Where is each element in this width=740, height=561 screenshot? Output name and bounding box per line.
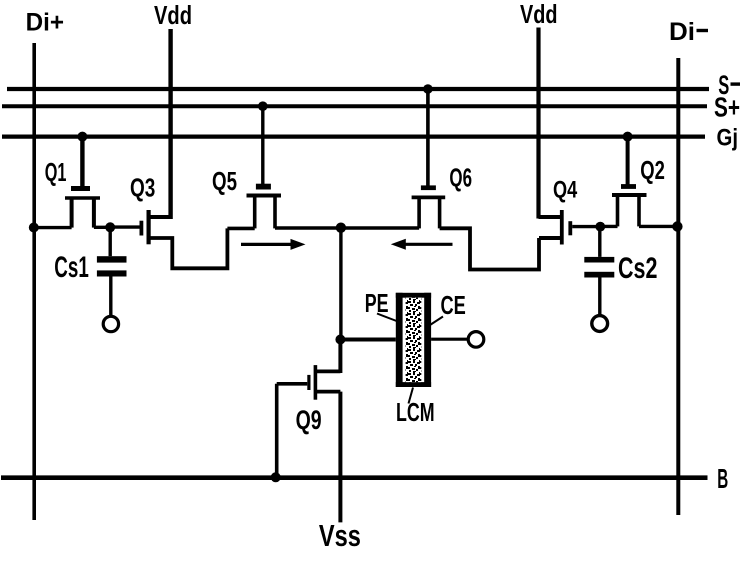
transistor Q9 (277, 340, 341, 400)
wire staircase Q6-Q4 (440, 228, 539, 269)
bus Gj (2, 135, 705, 139)
svg-text:Di: Di (669, 18, 695, 46)
LCM liquid crystal cell (396, 293, 431, 387)
wire Q9 gate tie to B (275, 384, 279, 478)
power Vdd right wire (536, 28, 540, 219)
svg-text:Q4: Q4 (553, 177, 578, 204)
svg-text:Q1: Q1 (45, 157, 67, 187)
bus S- (7, 87, 709, 91)
wire Q2 right to Di- (639, 225, 678, 228)
svg-text:Q2: Q2 (640, 155, 665, 185)
svg-text:Q6: Q6 (449, 163, 472, 193)
junction Q1 gate on Gj (77, 132, 87, 142)
label PE (365, 288, 401, 323)
wire node C to Q6 left (341, 226, 419, 230)
power Vdd left wire (168, 29, 172, 219)
transistor Q1 (65, 186, 100, 228)
svg-text:LCM: LCM (396, 397, 435, 427)
junction Q9 gate on B (271, 472, 281, 482)
wire Di- column (676, 58, 680, 515)
junction Q2 gate on Gj (623, 132, 633, 142)
transistor Q6 (412, 185, 446, 228)
net label S- (718, 70, 740, 100)
wire Q5 right to node C (275, 226, 341, 230)
wire staircase Q3-Q5 (149, 228, 228, 268)
wire Di+ column (32, 43, 36, 520)
svg-text:Di+: Di+ (26, 9, 64, 37)
svg-text:Gj: Gj (717, 125, 739, 152)
wire Q6 gate drop (426, 89, 430, 186)
wire Q1 gate drop (80, 137, 84, 189)
node D junction (pixel node) (335, 335, 345, 345)
wire node B2 to Q2 left (600, 225, 617, 228)
terminal circle CE (468, 332, 484, 348)
svg-text:Q9: Q9 (296, 405, 322, 435)
wire Q1 source to Di+ (34, 226, 72, 229)
wire Q5 left to staircase (227, 227, 254, 231)
wire CE plate to terminal (431, 338, 468, 341)
transistor Q2 (612, 184, 647, 226)
junction Q6 gate on S- (423, 84, 433, 94)
svg-text:S+: S+ (714, 92, 740, 123)
bus S+ (2, 104, 707, 108)
wire node C down (339, 228, 342, 340)
node A junction (105, 222, 115, 232)
svg-text:B: B (717, 463, 728, 494)
node C junction (336, 223, 346, 233)
svg-text:Q5: Q5 (212, 166, 237, 196)
label LCM (396, 388, 435, 428)
svg-text:Cs1: Cs1 (54, 251, 89, 284)
svg-text:Vdd: Vdd (520, 0, 558, 29)
svg-text:Cs2: Cs2 (618, 252, 657, 285)
node B2 junction (595, 222, 605, 232)
capacitor Cs2 (584, 227, 614, 332)
arrow left-pointing (391, 239, 453, 250)
net label Di- (669, 18, 708, 46)
wire Q9 source to Vss (338, 392, 342, 523)
junction on Di- (672, 221, 682, 231)
junction on Di+ (29, 223, 39, 233)
svg-text:Vdd: Vdd (154, 0, 192, 30)
junction Q5 gate on S+ (258, 101, 268, 111)
transistor Q4 (539, 210, 601, 245)
transistor Q5 (247, 184, 282, 229)
arrow right-pointing (241, 239, 306, 250)
wire Q5 gate drop (261, 106, 264, 184)
capacitor Cs1 (97, 227, 127, 331)
transistor Q3 (110, 210, 170, 244)
svg-text:CE: CE (441, 290, 466, 320)
wire Q1 drain to node A (94, 226, 110, 229)
wire Q2 gate drop (626, 137, 630, 185)
label CE (430, 290, 466, 325)
wire node D to PE plate (340, 338, 395, 342)
svg-text:PE: PE (365, 288, 389, 318)
svg-text:Q3: Q3 (130, 173, 155, 203)
svg-text:Vss: Vss (319, 518, 361, 553)
bus B (1, 475, 708, 480)
